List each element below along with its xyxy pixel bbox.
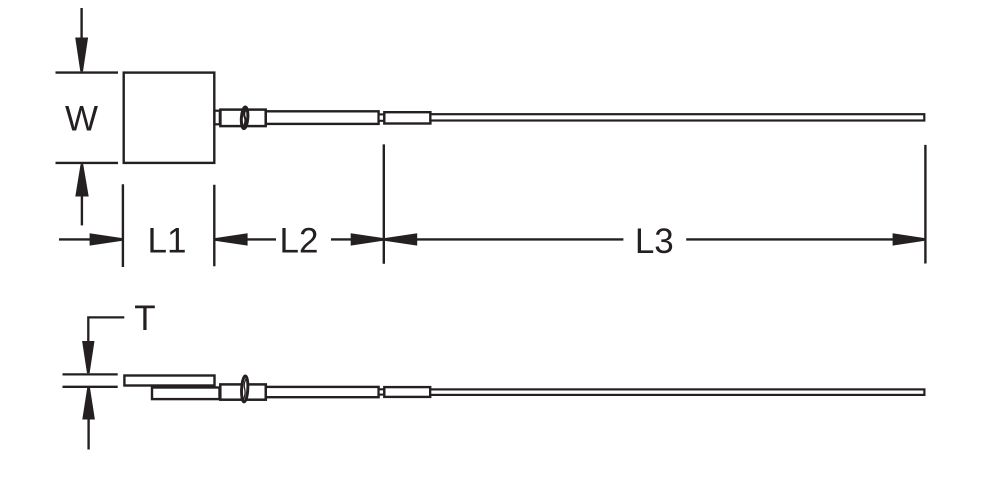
L3 right arrow pointing right: [686, 233, 925, 245]
L2 left arrow pointing left: [215, 233, 276, 245]
sensor body square (top view): [124, 73, 215, 163]
L1 / L2 shared extension line: [213, 185, 215, 267]
spring clip oval on ferrule (side view): [241, 376, 249, 402]
reduced neck between tubes (top view): [379, 114, 385, 120]
svg-text:W: W: [65, 100, 98, 139]
W dimension up arrow: [75, 164, 88, 225]
neck stub between body and ferrule (top view): [215, 111, 220, 125]
W dimension top extension line: [56, 71, 119, 73]
L3 left arrow pointing left: [384, 233, 623, 245]
T dimension down arrow head: [82, 341, 94, 373]
svg-text:T: T: [134, 299, 155, 338]
T bottom extension line: [63, 386, 118, 388]
L1 outside arrow pointing right: [59, 233, 122, 245]
W dimension down arrow: [75, 8, 88, 71]
ferrule block (top view): [220, 110, 265, 127]
T leader line: [88, 317, 124, 341]
upper flat plate (side view): [124, 376, 214, 386]
svg-text:L3: L3: [635, 222, 674, 261]
W dimension bottom extension line: [56, 162, 119, 164]
L3 right extension line: [924, 145, 926, 264]
svg-text:L2: L2: [280, 222, 319, 261]
ferrule block (side view): [220, 384, 265, 399]
T top extension line: [63, 373, 118, 375]
svg-text:L1: L1: [148, 222, 187, 261]
lead wire (top view): [430, 114, 924, 120]
spring clip oval on ferrule (top view): [241, 107, 249, 129]
transition tube 2 (top view): [384, 112, 430, 123]
L2 / L3 shared extension line: [383, 144, 385, 263]
reduced neck between tubes (side view): [379, 389, 385, 394]
L1 left extension line: [122, 184, 124, 267]
lower offset plate (side view): [152, 388, 220, 400]
lead wire (side view): [430, 389, 924, 395]
T dimension up arrow: [82, 387, 95, 449]
transition tube 2 (side view): [384, 387, 430, 397]
transition tube 1 (side view): [266, 387, 379, 397]
transition tube 1 (top view): [266, 111, 379, 124]
L2 right arrow pointing right: [331, 233, 383, 245]
